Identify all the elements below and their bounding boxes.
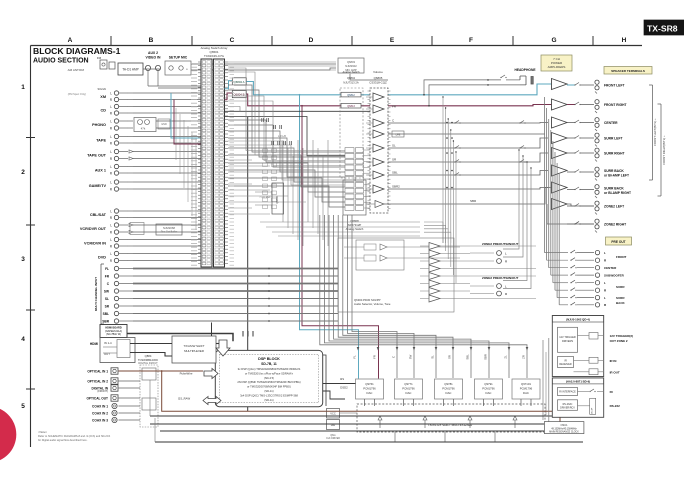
svg-text:NJM2068: NJM2068 (163, 226, 175, 230)
svg-text:OUT: OUT (104, 352, 110, 356)
svg-text:Analog Switch: Analog Switch (346, 227, 364, 231)
svg-text:SBR2: SBR2 (392, 185, 400, 189)
svg-text:(NJU5-1062 QD-4): (NJU5-1062 QD-4) (566, 317, 590, 321)
svg-text:CD: CD (101, 108, 107, 112)
svg-text:or TMS320/D768/MXS4F BM FPBG): or TMS320/D768/MXS4F BM FPBG) (247, 385, 291, 389)
svg-text:SETUP MIC: SETUP MIC (169, 56, 188, 60)
svg-text:Q6812: Q6812 (347, 94, 355, 97)
svg-text:TAPE OUT: TAPE OUT (87, 154, 107, 158)
svg-text:Q6804: Q6804 (347, 76, 356, 80)
svg-text:G: G (551, 37, 556, 44)
svg-text:TC9164N-C7G: TC9164N-C7G (204, 54, 225, 58)
svg-text:D: D (309, 37, 314, 44)
svg-text:Audio Selector, Volume, Tone: Audio Selector, Volume, Tone (354, 302, 391, 306)
svg-text:SURR RIGHT: SURR RIGHT (604, 152, 625, 156)
svg-text:3x DSP (Q4xx) TMS320AD6802/TMS: 3x DSP (Q4xx) TMS320AD6802/TMS320F 8DRAC… (238, 367, 301, 371)
svg-text:PCM1796: PCM1796 (402, 387, 415, 391)
svg-text:AM ANT/FM: AM ANT/FM (68, 68, 85, 72)
svg-text:OSC1: OSC1 (560, 423, 568, 427)
svg-text:SURR: SURR (616, 285, 625, 289)
svg-text:C: C (392, 356, 396, 358)
svg-text:(FRONT): (FRONT) (97, 389, 108, 393)
svg-text:L: L (110, 150, 112, 154)
svg-text:L: L (110, 105, 112, 109)
svg-text:4: 4 (21, 336, 25, 343)
svg-text:NJM2902: NJM2902 (345, 64, 357, 68)
svg-text:(SD-7B1b W): (SD-7B1b W) (106, 333, 121, 336)
svg-text:TX-SR8: TX-SR8 (647, 24, 678, 34)
svg-text:RS-232: RS-232 (610, 404, 621, 408)
svg-text:Q9781: Q9781 (444, 382, 453, 386)
svg-text:MULTI CHANNEL INPUT: MULTI CHANNEL INPUT (94, 277, 98, 311)
svg-text:TX/AS/W SHIFT: TX/AS/W SHIFT (183, 344, 204, 348)
svg-text:TC9WMB123FK: TC9WMB123FK (138, 358, 158, 362)
svg-text:AUX 1: AUX 1 (95, 168, 106, 172)
svg-text:CENTER: CENTER (604, 121, 618, 125)
svg-text:FRONT LEFT: FRONT LEFT (604, 84, 625, 88)
svg-text:FM: FM (97, 56, 102, 60)
svg-text:FR: FR (105, 274, 110, 278)
svg-text:PulseWire: PulseWire (180, 372, 193, 376)
svg-text:SBL: SBL (466, 354, 470, 360)
svg-text:GND: GND (161, 123, 167, 126)
svg-text:DAC: DAC (523, 391, 529, 395)
svg-text:PCM1796: PCM1796 (482, 387, 495, 391)
svg-text:Q9771: Q9771 (404, 382, 413, 386)
svg-text:SBR: SBR (484, 354, 488, 360)
svg-text:RI INTERFACE: RI INTERFACE (559, 391, 576, 394)
svg-text:VIDEO IN: VIDEO IN (146, 56, 161, 60)
svg-text:E: E (390, 37, 395, 44)
svg-text:5: 5 (21, 403, 25, 410)
svg-text:(SD-4 5): (SD-4 5) (264, 376, 274, 380)
svg-text:Q6804 A: Q6804 A (234, 80, 245, 84)
svg-text:12V TRIGGER: 12V TRIGGER (559, 336, 576, 339)
svg-text:DVD: DVD (98, 256, 106, 260)
svg-text:DAC: DAC (406, 391, 412, 395)
svg-text:Refer to SCHEMATIC DIAGRAMS-8: Refer to SCHEMATIC DIAGRAMS-8 and -9 (2C… (38, 434, 111, 438)
svg-text:Analog Switch: Analog Switch (342, 70, 360, 74)
svg-text:MULTIPLEXER: MULTIPLEXER (184, 349, 204, 353)
svg-text:2: 2 (21, 169, 25, 176)
svg-text:PCM1796: PCM1796 (442, 387, 455, 391)
svg-text:ZONE2 LEFT: ZONE2 LEFT (604, 205, 624, 209)
svg-text:Q6813: Q6813 (347, 105, 355, 108)
svg-text:FRONT RIGHT: FRONT RIGHT (604, 103, 627, 107)
svg-text:AUDIO SECTION: AUDIO SECTION (33, 58, 89, 65)
svg-text:CLK DRIVER: CLK DRIVER (326, 438, 340, 440)
svg-text:AMPLIFIERS: AMPLIFIERS (548, 65, 566, 69)
svg-text:PRE OUT: PRE OUT (611, 240, 625, 244)
svg-text:L: L (110, 180, 112, 184)
svg-text:SW: SW (104, 289, 109, 293)
svg-text:L: L (604, 251, 606, 255)
svg-text:B: B (149, 37, 154, 44)
svg-text:FR: FR (373, 355, 377, 359)
svg-text:TAPE: TAPE (96, 138, 106, 142)
svg-text:HEADPHONE: HEADPHONE (514, 68, 536, 72)
svg-text:XM: XM (100, 95, 106, 99)
svg-text:or TMS320/Uxx uPlus w/Face SDR: or TMS320/Uxx uPlus w/Face SDRAM h (245, 371, 294, 375)
svg-text:ZONE2 PREOUTS/IN/OUT: ZONE2 PREOUTS/IN/OUT (482, 276, 519, 280)
svg-text:CENTER: CENTER (604, 266, 617, 270)
svg-text:DRIVER/RCV: DRIVER/RCV (560, 406, 575, 409)
svg-text:SBL: SBL (103, 312, 109, 316)
svg-text:IN 1-4: IN 1-4 (104, 341, 112, 345)
svg-text:L: L (110, 165, 112, 169)
svg-text:I2S: I2S (340, 377, 344, 381)
svg-text:OPTICAL IN 1: OPTICAL IN 1 (87, 369, 108, 373)
svg-text:SR: SR (448, 355, 452, 359)
svg-text:SBR: SBR (102, 319, 109, 323)
svg-text:COAX IN 3: COAX IN 3 (92, 418, 108, 422)
svg-text:I2S_RAW: I2S_RAW (178, 397, 191, 401)
svg-text:AUX 2: AUX 2 (148, 51, 158, 55)
svg-text:DIGITAL IN/OUT: DIGITAL IN/OUT (138, 361, 158, 365)
svg-text:CS3318-CQZ: CS3318-CQZ (369, 81, 387, 85)
svg-text:FRONT RIGHT(B/TL) +: FRONT RIGHT(B/TL) + (662, 135, 666, 165)
svg-text:3x4 DSP (Q6C) TMS-L33C/37RO/2: 3x4 DSP (Q6C) TMS-L33C/37RO/2 ESMPP-368 (240, 393, 298, 397)
svg-text:3: 3 (21, 256, 25, 263)
svg-text:49.152MHz/45.1584MHz: 49.152MHz/45.1584MHz (551, 428, 577, 430)
svg-text:L: L (110, 238, 112, 242)
svg-text:FL: FL (353, 355, 357, 359)
svg-text:GAME/TV: GAME/TV (89, 184, 107, 188)
svg-text:Q9791: Q9791 (484, 382, 493, 386)
svg-text:Q6805: Q6805 (374, 76, 383, 80)
svg-text:L: L (110, 252, 112, 256)
svg-text:DSP BLOCK: DSP BLOCK (258, 357, 280, 361)
svg-text:or BI-AMP RIGHT: or BI-AMP RIGHT (604, 191, 631, 195)
svg-text:H: H (622, 37, 627, 44)
svg-text:<Note>: <Note> (38, 430, 48, 434)
svg-text:ZONE2 PREOUTS/IN/OUT: ZONE2 PREOUTS/IN/OUT (482, 242, 519, 246)
svg-text:Q9761: Q9761 (365, 382, 374, 386)
svg-text:LFE: LFE (396, 133, 401, 137)
svg-text:2N DSP (Q5MF TMS320/256O/TMS32: 2N DSP (Q5MF TMS320/256O/TMS320F BM FPBG… (237, 380, 300, 384)
svg-text:SURR: SURR (616, 296, 625, 300)
svg-text:OPTICAL IN 2: OPTICAL IN 2 (87, 379, 108, 383)
svg-text:BACK: BACK (616, 301, 625, 305)
svg-text:L: L (110, 91, 112, 95)
svg-text:CBL/SAT: CBL/SAT (90, 213, 107, 217)
svg-text:COAX IN 1: COAX IN 1 (92, 404, 108, 408)
svg-text:IR OUT: IR OUT (610, 370, 620, 374)
svg-text:DAC: DAC (446, 391, 452, 395)
svg-text:DAC: DAC (486, 391, 492, 395)
svg-text:SURR LEFT: SURR LEFT (604, 137, 623, 141)
svg-text:OPTICAL OUT: OPTICAL OUT (86, 396, 108, 400)
svg-text:L: L (110, 119, 112, 123)
svg-text:SURR BACK: SURR BACK (604, 169, 624, 173)
svg-text:1: 1 (21, 84, 25, 91)
svg-text:FRONT LEFT(B/TL) +: FRONT LEFT(B/TL) + (653, 118, 657, 146)
svg-text:L: L (604, 281, 606, 285)
svg-text:PCM1796: PCM1796 (363, 387, 376, 391)
svg-text:COAX IN 2: COAX IN 2 (92, 411, 108, 415)
svg-text:SL: SL (105, 297, 109, 301)
svg-text:or BI-AMP LEFT: or BI-AMP LEFT (604, 174, 629, 178)
svg-text:L: L (110, 209, 112, 213)
svg-text:47k: 47k (141, 127, 146, 131)
svg-text:(SD-11): (SD-11) (264, 389, 273, 393)
svg-text:Q6806: Q6806 (276, 196, 279, 204)
svg-text:(HA2.0-8871 BD-9): (HA2.0-8871 BD-9) (566, 379, 590, 383)
svg-text:DSD2: DSD2 (340, 386, 348, 390)
svg-text:FRONT: FRONT (616, 255, 626, 259)
svg-text:CN-9P: CN-9P (592, 407, 594, 414)
svg-text:MAIN RESONANCE CLOCK: MAIN RESONANCE CLOCK (549, 430, 579, 433)
svg-text:L: L (110, 135, 112, 139)
svg-text:for Digital audio signal flow: for Digital audio signal flow described … (38, 438, 88, 442)
svg-text:SURR BACK: SURR BACK (604, 187, 624, 191)
svg-text:Q97101: Q97101 (521, 382, 531, 386)
svg-text:Q8xx: Q8xx (330, 435, 336, 437)
svg-text:RECEIVER: RECEIVER (559, 363, 571, 366)
svg-text:A: A (68, 37, 73, 44)
svg-text:SD-7B, 11: SD-7B, 11 (261, 362, 277, 366)
svg-text:FL: FL (105, 267, 109, 271)
svg-text:SL: SL (392, 144, 396, 148)
svg-text:DAC: DAC (367, 391, 373, 395)
svg-text:ZONE2 RIGHT: ZONE2 RIGHT (604, 223, 626, 227)
svg-text:VCR/DVR IN: VCR/DVR IN (84, 241, 106, 245)
svg-text:SPEAKER TERMINALS: SPEAKER TERMINALS (611, 69, 645, 73)
svg-text:NJU7313 2A: NJU7313 2A (343, 81, 358, 85)
svg-text:(XM Spec Only): (XM Spec Only) (68, 92, 86, 96)
svg-text:PHONO: PHONO (92, 123, 106, 127)
svg-text:HDMI: HDMI (90, 342, 98, 346)
svg-text:BLOCK DIAGRAMS-1: BLOCK DIAGRAMS-1 (33, 46, 121, 56)
svg-text:< vol. REF >: < vol. REF > (259, 196, 273, 199)
svg-text:VCC: VCC (330, 412, 336, 416)
svg-text:L R L/R: L R L/R (278, 135, 286, 138)
svg-text:(SD-11): (SD-11) (264, 398, 273, 402)
svg-text:VCR/DVR OUT: VCR/DVR OUT (80, 227, 107, 231)
svg-text:C: C (230, 37, 235, 44)
svg-text:IR IN: IR IN (610, 359, 617, 363)
svg-text:SW: SW (409, 354, 413, 359)
svg-text:ZL: ZL (504, 355, 508, 359)
svg-text:L: L (110, 223, 112, 227)
svg-text:SL: SL (431, 355, 435, 359)
svg-text:SR: SR (105, 304, 110, 308)
svg-text:OUT ZONE 2: OUT ZONE 2 (610, 339, 628, 343)
svg-text:F: F (469, 37, 473, 44)
svg-text:SBL: SBL (392, 171, 398, 175)
svg-text:DRIVERS: DRIVERS (562, 340, 573, 343)
svg-text:PCM1796: PCM1796 (520, 387, 533, 391)
svg-text:SIG/VA: SIG/VA (98, 87, 107, 91)
svg-text:TA-D1 AMP: TA-D1 AMP (122, 68, 139, 72)
svg-text:Volume: Volume (373, 70, 383, 74)
svg-text:SBR: SBR (470, 199, 477, 203)
svg-text:SUBWOOFER: SUBWOOFER (604, 274, 625, 278)
svg-text:ZR: ZR (522, 355, 526, 359)
svg-text:Q6803: Q6803 (347, 60, 356, 64)
svg-text:12V TRIGGER(2): 12V TRIGGER(2) (610, 334, 634, 338)
svg-text:RI: RI (610, 390, 613, 394)
svg-text:L: L (604, 296, 606, 300)
